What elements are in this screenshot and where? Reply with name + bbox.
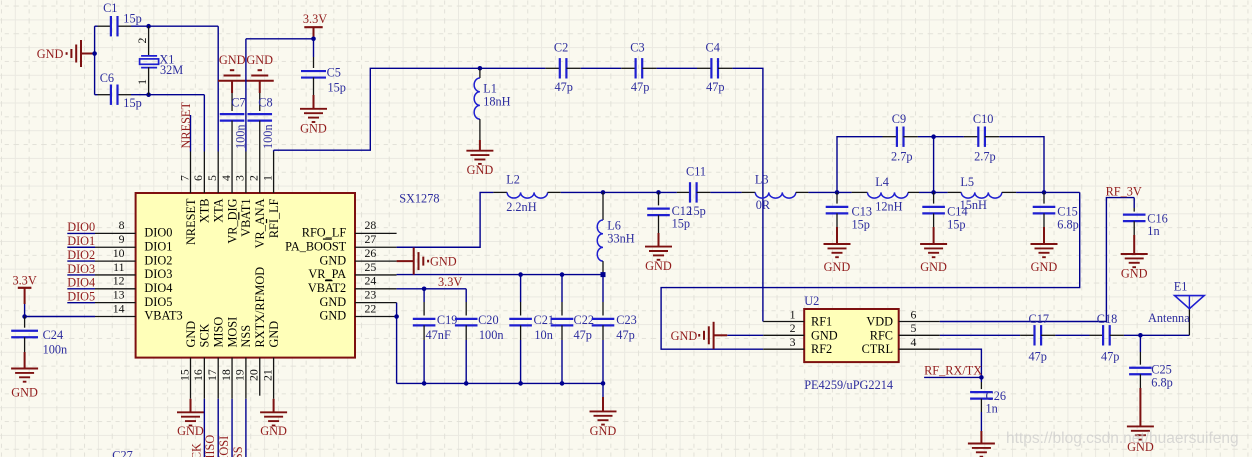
svg-text:47nF: 47nF (426, 328, 451, 342)
inductor L2 (493, 191, 507, 193)
svg-text:C20: C20 (478, 313, 499, 327)
junction C21 top (518, 272, 523, 277)
svg-text:100n: 100n (479, 328, 504, 342)
svg-text:GND: GND (184, 321, 198, 348)
capacitor C19 (423, 289, 425, 302)
net label MOSI wire (231, 399, 233, 457)
svg-text:L5: L5 (960, 175, 974, 189)
inductor L3 0R (742, 191, 756, 193)
svg-text:12: 12 (113, 274, 125, 288)
junction C14 node (931, 190, 936, 195)
svg-text:RFC: RFC (870, 328, 893, 342)
wire C9-C10 (918, 136, 964, 138)
crystal X1 (148, 26, 150, 56)
svg-text:19: 19 (233, 369, 247, 381)
svg-text:GND: GND (37, 47, 64, 61)
wire CTRL down (940, 349, 982, 377)
svg-text:GND: GND (1031, 260, 1058, 274)
ground under C16 (1121, 253, 1148, 255)
wire mid down to row (933, 137, 935, 193)
svg-text:GND: GND (671, 329, 698, 343)
inductor L1 to ground (479, 68, 481, 78)
junction bottom rail (560, 381, 565, 386)
svg-text:VR_PA: VR_PA (308, 267, 346, 281)
svg-text:GND: GND (645, 259, 672, 273)
wire L4-C14 node (919, 191, 948, 193)
U1 right pin 27 PA_BOOST stub (355, 246, 397, 248)
inductor L4 (852, 191, 868, 193)
junction bottom rail (464, 381, 469, 386)
svg-text:MOSI: MOSI (225, 317, 239, 348)
svg-text:15p: 15p (852, 218, 870, 232)
svg-text:8: 8 (119, 218, 125, 232)
svg-text:https://blog.csdn.net/huaersui: https://blog.csdn.net/huaersuifeng (1006, 430, 1239, 447)
svg-text:C4: C4 (706, 41, 720, 55)
svg-text:20: 20 (247, 369, 261, 381)
capacitor C5 (313, 39, 315, 57)
ground crystal rail (81, 53, 95, 55)
inductor L6 (602, 192, 604, 220)
ground U2 pin2 (727, 334, 763, 336)
U1 top pin 7 NRESET stub (190, 152, 192, 194)
svg-text:26: 26 (365, 246, 377, 260)
wire C10 down to C15 node (999, 137, 1044, 193)
net label RF_RX/TX wire (924, 376, 981, 378)
svg-text:GND: GND (320, 295, 347, 309)
svg-text:3: 3 (790, 335, 796, 349)
svg-text:L6: L6 (607, 219, 621, 233)
svg-text:RF_3V: RF_3V (1106, 184, 1142, 198)
svg-text:1: 1 (790, 307, 796, 321)
net label DIO0 wire (67, 232, 95, 234)
U1 top pin 3 VBAT1 stub (245, 152, 247, 194)
svg-text:16: 16 (191, 369, 205, 381)
svg-text:NRESET: NRESET (184, 198, 198, 245)
svg-text:RF2: RF2 (811, 342, 832, 356)
svg-text:U2: U2 (804, 294, 819, 308)
U1 top pin 5 XTA stub (217, 152, 219, 194)
svg-text:C18: C18 (1097, 312, 1118, 326)
wire L3 to C13 node (808, 191, 851, 193)
net label SCK wire (203, 399, 205, 457)
U1 bottom pin 18 MOSI stub (231, 358, 233, 399)
svg-text:DIO0: DIO0 (67, 220, 95, 234)
svg-text:18nH: 18nH (483, 95, 510, 109)
U2 right pin 4 CTRL stub (899, 348, 940, 350)
svg-text:MISO: MISO (203, 435, 217, 457)
capacitor C14 shunt to ground (933, 192, 935, 203)
ground under C25 (1127, 425, 1154, 427)
wire L2 to C11 (561, 191, 677, 193)
svg-text:100n: 100n (43, 343, 68, 357)
inductor L5 (948, 191, 962, 193)
wire row down to RF2 run (661, 192, 1080, 349)
U2 left pin 1 RF1 stub (763, 321, 804, 323)
svg-text:GND: GND (467, 163, 494, 177)
svg-text:GND: GND (320, 309, 347, 323)
svg-text:NSS: NSS (231, 446, 245, 457)
svg-text:GND: GND (320, 253, 347, 267)
U1 left pin 8 DIO0 stub (95, 232, 136, 234)
junction L6 top (601, 190, 606, 195)
svg-text:DIO3: DIO3 (67, 262, 95, 276)
svg-text:C25: C25 (1151, 362, 1172, 376)
svg-text:24: 24 (365, 274, 377, 288)
svg-text:4: 4 (219, 175, 233, 181)
wire pin23 to pin22 (396, 303, 398, 317)
U1 left pin 9 DIO1 stub (95, 246, 136, 248)
wire VBAT3 (25, 316, 95, 318)
U1 right pin 22 GND stub (355, 316, 397, 318)
svg-text:C17: C17 (1029, 312, 1050, 326)
svg-text:MOSI: MOSI (217, 436, 231, 457)
junction C13/C9 node (835, 190, 840, 195)
svg-text:C1: C1 (103, 1, 117, 15)
svg-text:3: 3 (233, 175, 247, 181)
wire VBAT2 3.3V (397, 288, 467, 290)
svg-text:11: 11 (113, 260, 124, 274)
U1 right pin 23 GND stub (355, 302, 397, 304)
svg-text:22: 22 (365, 301, 377, 315)
net label DIO4 wire (67, 288, 95, 290)
antenna E1 (1188, 309, 1190, 336)
svg-text:RXTX/RFMOD: RXTX/RFMOD (253, 267, 267, 348)
svg-text:C8: C8 (258, 96, 272, 110)
svg-text:GND: GND (260, 424, 287, 438)
svg-text:47p: 47p (1029, 350, 1047, 364)
svg-text:SX1278: SX1278 (399, 191, 439, 205)
svg-text:PE4259/uPG2214: PE4259/uPG2214 (804, 378, 893, 392)
junction C22 top (560, 272, 565, 277)
net label MISO wire (217, 399, 219, 457)
U2 left pin 2 GND stub (763, 334, 804, 336)
svg-text:VBAT3: VBAT3 (144, 309, 182, 323)
svg-text:RFO_LF: RFO_LF (302, 226, 347, 240)
svg-text:DIO3: DIO3 (144, 267, 172, 281)
svg-text:15p: 15p (123, 11, 141, 25)
svg-text:18: 18 (219, 369, 233, 381)
wire XTA from node A (149, 25, 219, 27)
net label NRESET + wire (190, 115, 192, 152)
svg-text:3.3V: 3.3V (438, 275, 462, 289)
junction bottom rail (422, 381, 427, 386)
svg-text:C14: C14 (947, 204, 968, 218)
wire C3-C4 (657, 67, 697, 69)
svg-text:VR_ANA: VR_ANA (253, 198, 267, 248)
svg-text:L3: L3 (755, 173, 769, 187)
svg-text:47p: 47p (631, 80, 649, 94)
net label NSS wire (245, 399, 247, 457)
svg-text:23: 23 (365, 287, 377, 301)
net label DIO1 wire (67, 246, 95, 248)
wire C11-L3 (710, 191, 741, 193)
junction bottom rail (518, 381, 523, 386)
capacitor C21 (520, 275, 522, 302)
capacitor C24 (24, 317, 26, 328)
wire RFC to C17 (940, 334, 1020, 336)
junction pin22 node (394, 314, 399, 319)
svg-text:3.3V: 3.3V (303, 12, 327, 26)
svg-text:VBAT1: VBAT1 (239, 199, 253, 237)
svg-text:GND: GND (246, 53, 273, 67)
net label DIO2 wire (67, 260, 95, 262)
svg-text:GND: GND (267, 321, 281, 348)
svg-text:15p: 15p (672, 217, 690, 231)
capacitor C1 (110, 16, 112, 36)
svg-text:C22: C22 (574, 313, 595, 327)
junction C15 node (1042, 190, 1047, 195)
U2 right pin 5 RFC stub (899, 334, 940, 336)
svg-text:33nH: 33nH (607, 232, 634, 246)
svg-text:5: 5 (205, 175, 219, 181)
svg-text:32M: 32M (160, 63, 183, 77)
wire C2 feed (480, 67, 546, 69)
svg-text:VR_DIG: VR_DIG (225, 198, 239, 243)
U2 right pin 6 VDD stub (899, 321, 940, 323)
svg-text:47p: 47p (706, 80, 724, 94)
svg-text:6: 6 (911, 307, 917, 321)
svg-text:10n: 10n (534, 328, 552, 342)
svg-text:2: 2 (790, 321, 796, 335)
svg-text:CTRL: CTRL (862, 342, 893, 356)
capacitor C10 (964, 136, 978, 138)
capacitor C9 (883, 136, 897, 138)
junction C24 top (22, 314, 27, 319)
U1 bottom pin 20 RXTX/RFMOD stub (259, 358, 261, 396)
svg-text:3.3V: 3.3V (12, 273, 36, 287)
svg-text:C11: C11 (686, 165, 706, 179)
svg-text:27: 27 (365, 232, 377, 246)
svg-text:XTB: XTB (198, 199, 212, 224)
wire ground rail down (396, 317, 398, 384)
svg-text:L4: L4 (875, 175, 889, 189)
svg-text:15p: 15p (947, 218, 965, 232)
wire C13 node up to C9 row (837, 137, 883, 193)
U1 right pin 25 VR_PA stub (355, 274, 397, 276)
U1 top pin 4 VR_DIG stub (231, 152, 233, 194)
svg-text:12nH: 12nH (875, 199, 902, 213)
svg-text:2: 2 (135, 38, 149, 44)
ground under C24 (11, 368, 38, 370)
svg-text:DIO0: DIO0 (144, 226, 172, 240)
wire C18 to antenna node (1124, 334, 1190, 336)
svg-text:6.8p: 6.8p (1151, 375, 1173, 389)
U1 right pin 26 GND stub (355, 260, 397, 262)
capacitor C11 series (677, 191, 690, 193)
svg-text:4: 4 (911, 335, 917, 349)
svg-text:14: 14 (113, 301, 125, 315)
wire C6 row (95, 94, 98, 96)
U1 bottom pin 21 GND stub (273, 358, 275, 399)
U1 bottom pin 16 SCK stub (203, 358, 205, 399)
wire C1 row (95, 25, 98, 27)
svg-text:21: 21 (260, 369, 274, 381)
svg-text:GND: GND (590, 424, 617, 438)
ground pin 21 (273, 399, 275, 413)
U1 bottom pin 17 MISO stub (217, 358, 219, 399)
svg-text:C24: C24 (43, 328, 64, 342)
junction C12 top (656, 190, 661, 195)
capacitor C18 (1090, 334, 1104, 336)
capacitor C23 (602, 275, 604, 302)
capacitor C17 (1020, 334, 1034, 336)
svg-text:7: 7 (177, 175, 191, 181)
svg-text:100n: 100n (261, 124, 275, 149)
svg-text:GND: GND (1121, 266, 1148, 280)
wire VR_PA rail (397, 274, 603, 276)
left rail wire (94, 26, 96, 95)
svg-text:DIO1: DIO1 (67, 234, 95, 248)
ground pin 15 (190, 399, 192, 413)
svg-text:DIO4: DIO4 (144, 281, 172, 295)
svg-text:5: 5 (911, 321, 917, 335)
svg-text:RF_RX/TX: RF_RX/TX (924, 363, 982, 377)
U1 left pin 12 DIO4 stub (95, 288, 136, 290)
svg-text:L2: L2 (506, 173, 520, 187)
svg-text:17: 17 (205, 369, 219, 381)
svg-text:DIO5: DIO5 (144, 295, 172, 309)
svg-text:RFI_LF: RFI_LF (267, 198, 281, 238)
node B junction (146, 92, 151, 97)
capacitor C26 (980, 377, 982, 382)
svg-text:GND: GND (824, 260, 851, 274)
svg-text:GND: GND (177, 424, 204, 438)
wire bottom ground rail (397, 382, 603, 384)
wire VDD to RF_3V (940, 198, 1134, 322)
svg-text:47p: 47p (616, 328, 634, 342)
svg-text:DIO5: DIO5 (67, 289, 95, 303)
wire L5-C15 node (1016, 191, 1080, 193)
U1 left pin 14 VBAT3 stub (95, 316, 136, 318)
svg-text:GND: GND (219, 53, 246, 67)
ground bottom rail (602, 383, 604, 397)
svg-text:C5: C5 (327, 66, 341, 80)
svg-text:C15: C15 (1057, 204, 1078, 218)
svg-text:GND: GND (300, 122, 327, 136)
svg-text:C19: C19 (437, 313, 458, 327)
svg-text:XTA: XTA (212, 198, 226, 222)
svg-text:GND: GND (920, 260, 947, 274)
capacitor C25 shunt (1139, 335, 1141, 352)
svg-text:6.8p: 6.8p (1057, 218, 1079, 232)
svg-text:C2: C2 (554, 41, 568, 55)
svg-text:1: 1 (135, 79, 149, 85)
svg-text:2.7p: 2.7p (891, 149, 913, 163)
svg-text:DIO2: DIO2 (67, 248, 95, 262)
junction ground rail (92, 51, 97, 56)
svg-text:VDD: VDD (866, 315, 893, 329)
junction rail end C23 (601, 381, 606, 386)
svg-text:DIO4: DIO4 (67, 276, 95, 290)
capacitor C4 (697, 67, 711, 69)
capacitor C15 shunt to ground (1043, 192, 1045, 203)
capacitor C12 shunt to ground (658, 192, 660, 205)
capacitor C2 (545, 67, 559, 69)
svg-text:GND: GND (811, 328, 838, 342)
svg-text:E1: E1 (1174, 280, 1188, 294)
svg-text:SCK: SCK (198, 323, 212, 347)
U1 bottom pin 15 GND stub (190, 358, 192, 399)
U1 left pin 10 DIO2 stub (95, 260, 136, 262)
ground under C26 (968, 443, 995, 445)
svg-text:RF1: RF1 (811, 315, 832, 329)
U2 left pin 3 RF2 stub (763, 348, 804, 350)
capacitor C3 (621, 67, 635, 69)
svg-text:47p: 47p (574, 328, 592, 342)
svg-text:2.7p: 2.7p (974, 149, 996, 163)
wire XTB from node B (149, 94, 205, 96)
U1 top pin 2 VR_ANA stub (259, 152, 261, 194)
U1 left pin 13 DIO5 stub (95, 302, 136, 304)
svg-text:1n: 1n (1147, 224, 1159, 238)
svg-text:28: 28 (365, 218, 377, 232)
capacitor C20 (465, 289, 467, 302)
svg-text:NSS: NSS (239, 325, 253, 348)
IC U1 SX1278 body (136, 193, 355, 358)
node A junction (146, 24, 151, 29)
svg-text:15p: 15p (687, 204, 705, 218)
wire RFI_LF to filter (273, 150, 275, 151)
svg-text:C10: C10 (973, 112, 994, 126)
svg-text:L1: L1 (483, 81, 497, 95)
svg-text:2: 2 (247, 175, 261, 181)
svg-text:9: 9 (119, 232, 125, 246)
junction C19 top (422, 287, 427, 292)
svg-text:C9: C9 (892, 112, 906, 126)
U1 bottom pin 19 NSS stub (245, 358, 247, 399)
svg-text:0R: 0R (756, 198, 771, 212)
net label DIO5 wire (67, 302, 95, 304)
ground under C5 (313, 95, 315, 109)
U1 top pin 1 RFI_LF stub (273, 152, 275, 194)
svg-text:C7: C7 (231, 96, 245, 110)
svg-text:PA_BOOST: PA_BOOST (285, 239, 347, 253)
U1 right pin 28 RFO_LF stub (355, 232, 397, 234)
svg-text:GND: GND (11, 386, 38, 400)
rail end vertex (601, 272, 606, 277)
svg-text:47p: 47p (1101, 350, 1119, 364)
wire PA_BOOST up to row (397, 192, 494, 247)
svg-text:2.2nH: 2.2nH (506, 200, 537, 214)
svg-text:15: 15 (177, 369, 191, 381)
junction 3.3V node (311, 37, 316, 42)
wire C2-C3 (581, 67, 621, 69)
svg-text:C27: C27 (112, 449, 133, 458)
net label DIO3 wire (67, 274, 95, 276)
svg-text:MISO: MISO (212, 317, 226, 348)
svg-text:DIO2: DIO2 (144, 253, 172, 267)
svg-text:DIO1: DIO1 (144, 239, 172, 253)
svg-text:1: 1 (260, 175, 274, 181)
svg-text:15p: 15p (328, 80, 346, 94)
capacitor C22 (561, 275, 563, 302)
svg-text:C13: C13 (852, 204, 873, 218)
svg-text:C3: C3 (630, 41, 644, 55)
svg-text:10: 10 (113, 246, 125, 260)
ground pin 26 (397, 260, 414, 262)
junction RF_RX/TX node (979, 375, 984, 380)
wire C4 to U2 RF1 (732, 68, 763, 321)
svg-text:Antenna: Antenna (1148, 311, 1190, 325)
wire C17-C18 (1055, 334, 1089, 336)
junction C25/antenna node (1138, 333, 1143, 338)
junction C9/C10 mid (931, 134, 936, 139)
U1 top pin 6 XTB stub (203, 152, 205, 194)
capacitor C16 (1133, 198, 1135, 208)
capacitor C13 shunt to ground (836, 192, 838, 203)
capacitor C6 (110, 85, 112, 105)
IC U2 body (804, 309, 899, 362)
